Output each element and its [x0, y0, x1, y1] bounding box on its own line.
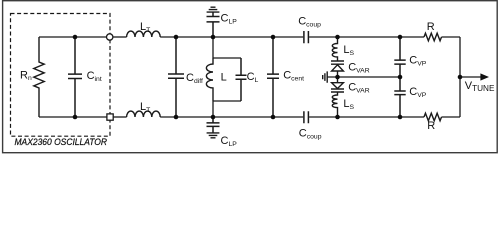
- wire varactor node row: [327, 76, 400, 78]
- node Cint top: [73, 35, 78, 40]
- wire tank stub bottom: [213, 101, 241, 117]
- wire R top to corner: [442, 36, 461, 38]
- wire port to LT bottom: [114, 116, 127, 118]
- arrowhead VTUNE: [480, 73, 489, 80]
- inductor LT bottom: [127, 111, 161, 117]
- node CLP/L top: [211, 35, 216, 40]
- capacitor Cint: [68, 37, 82, 117]
- inductor LS top: [332, 37, 337, 61]
- wire Ccoup bottom to corner: [309, 116, 424, 118]
- resistor Rn: [34, 37, 44, 117]
- capacitor CVP top: [394, 37, 405, 91]
- capacitor CL: [236, 58, 247, 101]
- border frame: [3, 1, 498, 153]
- capacitor CVP bottom: [394, 91, 405, 117]
- port circle top: [107, 34, 113, 40]
- node Cdiff bottom: [174, 115, 179, 120]
- svg-text:MAX2360 OSCILLATOR: MAX2360 OSCILLATOR: [15, 137, 108, 147]
- node varactor center: [335, 75, 340, 80]
- port square bottom: [107, 114, 113, 120]
- wire top rail LT to Ccoup: [160, 36, 303, 38]
- node CVP top: [398, 35, 403, 40]
- resistor R top: [424, 33, 442, 41]
- node CLP/L bottom: [211, 115, 216, 120]
- capacitor CLP top: [207, 12, 220, 37]
- inductor LS bottom: [332, 92, 337, 117]
- node CVP middle: [398, 75, 403, 80]
- node Cdiff top: [174, 35, 179, 40]
- wire VTUNE arrow shaft: [460, 76, 481, 78]
- inductor L: [206, 58, 213, 101]
- svg-text:R: R: [427, 120, 435, 132]
- ground top (for CLP top): [207, 7, 220, 12]
- wire bottom rail inside box: [39, 116, 107, 118]
- capacitor Cdiff: [168, 37, 184, 117]
- wire bottom rail LT to Ccoup: [160, 116, 303, 118]
- wire right vertical: [459, 37, 461, 117]
- varactor CVAR top: [331, 61, 344, 77]
- capacitor Ccent: [267, 37, 279, 117]
- varactor CVAR bottom: [331, 77, 344, 92]
- node VTUNE: [458, 75, 463, 80]
- node LS top: [335, 35, 340, 40]
- wire tank stub top: [213, 37, 241, 58]
- wire R bottom to corner: [442, 116, 461, 118]
- node LS bottom: [335, 115, 340, 120]
- node CVP bottom: [398, 115, 403, 120]
- dashed box MAX2360 oscillator: [11, 14, 111, 137]
- node Ccent bottom: [271, 115, 276, 120]
- ground bottom (for CLP bottom): [207, 133, 220, 138]
- svg-text:L: L: [221, 72, 227, 84]
- svg-text:R: R: [427, 21, 435, 33]
- ground left (varactor node): [323, 71, 328, 82]
- node junction dots: [73, 35, 463, 120]
- wire port to LT top: [113, 36, 126, 38]
- node Cint bottom: [73, 115, 78, 120]
- wire Ccoup top to corner: [309, 36, 424, 38]
- capacitor Ccoup bottom: [304, 111, 309, 123]
- resistor R bottom: [424, 113, 442, 121]
- node Ccent top: [271, 35, 276, 40]
- inductor LT top: [127, 31, 161, 37]
- capacitor CLP bottom: [207, 117, 220, 133]
- wire top rail inside box: [39, 36, 106, 38]
- capacitor Ccoup top: [304, 31, 309, 43]
